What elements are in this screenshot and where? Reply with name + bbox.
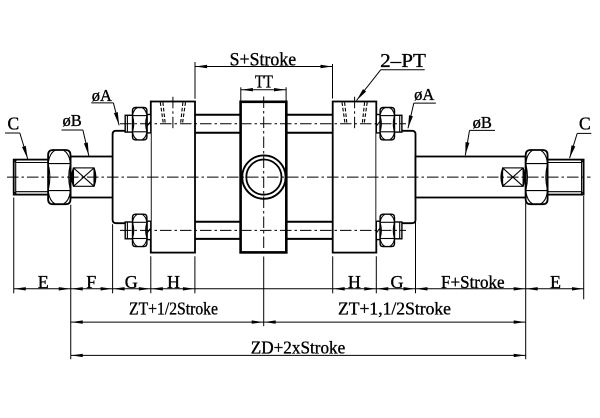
svg-text:G: G <box>125 272 138 292</box>
left port hidden thread lines <box>160 102 185 123</box>
svg-text:TT: TT <box>255 72 273 92</box>
right bottom tie-rod nut <box>376 214 402 246</box>
top tie rod centerline <box>120 123 406 125</box>
main axis centerline <box>7 176 591 178</box>
wire bottom tie rod <box>195 238 333 240</box>
label oB right with leader <box>465 113 495 155</box>
svg-text:ZT+1,1/2Stroke: ZT+1,1/2Stroke <box>338 299 451 319</box>
left piston rod <box>71 157 113 198</box>
trunnion pin bore inner circle <box>246 160 281 195</box>
row1 extension lines <box>14 196 584 359</box>
left rod wrench flats symbol <box>72 168 96 186</box>
svg-text:øB: øB <box>62 111 81 130</box>
svg-text:H: H <box>348 272 361 292</box>
label oB left with leader <box>62 111 89 156</box>
right port hidden thread lines <box>342 102 367 123</box>
right piston rod <box>416 157 526 198</box>
right top tie-rod nut <box>376 108 402 140</box>
label oA right with leader <box>408 85 436 128</box>
svg-text:ZD+2xStroke: ZD+2xStroke <box>251 338 346 358</box>
svg-text:øA: øA <box>92 86 112 105</box>
label C left with leader <box>5 113 28 159</box>
dimension ZT+1/2Stroke <box>71 299 264 324</box>
trunnion vertical centerline <box>263 97 265 257</box>
trunnion block <box>241 102 287 253</box>
right port centerline <box>354 97 356 128</box>
right rod wrench flats symbol <box>501 168 524 186</box>
svg-text:G: G <box>391 272 404 292</box>
svg-text:S+Stroke: S+Stroke <box>230 49 297 70</box>
svg-text:E: E <box>38 272 49 292</box>
dimension ZD+2xStroke <box>71 338 526 358</box>
svg-text:C: C <box>579 114 591 134</box>
label 2-PT with leader to port <box>357 50 427 101</box>
svg-text:F+Stroke: F+Stroke <box>441 272 505 292</box>
left bottom tie-rod nut <box>125 214 151 246</box>
svg-text:E: E <box>550 272 561 292</box>
svg-text:F: F <box>86 272 96 292</box>
label oA left with leader <box>91 86 119 125</box>
bottom tie rod centerline <box>120 229 406 231</box>
svg-text:2–PT: 2–PT <box>380 50 426 72</box>
label C right with leader <box>570 114 592 159</box>
svg-text:H: H <box>167 272 180 292</box>
left rod hex nut <box>48 150 70 204</box>
right gland retainer block <box>376 131 415 223</box>
right rod hex nut <box>526 150 548 204</box>
svg-text:C: C <box>7 113 19 133</box>
svg-text:øA: øA <box>414 85 434 104</box>
cylinder barrel <box>195 132 333 134</box>
right cylinder head <box>333 102 377 253</box>
left top tie-rod nut <box>125 108 151 140</box>
row1 dimension line E F G H / H G F+Stroke E <box>14 288 584 290</box>
right rod threaded end <box>548 160 584 195</box>
dimension ZT+1,1/2Stroke <box>264 299 526 324</box>
wire top tie rod <box>195 114 333 116</box>
dimension S+Stroke <box>195 49 333 98</box>
svg-text:øB: øB <box>473 113 492 132</box>
trunnion pin bore outer circle <box>242 155 285 198</box>
dimension TT <box>241 72 287 102</box>
left cylinder head <box>151 102 195 253</box>
left rod threaded end <box>14 160 48 195</box>
left gland retainer block <box>113 131 151 223</box>
left port centerline <box>172 97 174 128</box>
svg-text:ZT+1/2Stroke: ZT+1/2Stroke <box>129 299 218 319</box>
